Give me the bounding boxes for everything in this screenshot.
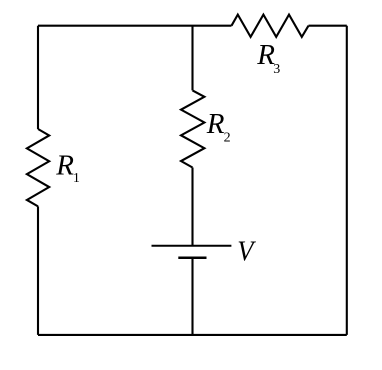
resistor R1 — [27, 129, 49, 206]
svg-text:R: R — [55, 149, 74, 181]
svg-text:V: V — [237, 236, 256, 268]
wire top-right segment — [309, 25, 347, 27]
wire right side — [346, 26, 348, 335]
wire top-left segment — [38, 25, 232, 27]
svg-text:R: R — [206, 108, 225, 140]
svg-text:2: 2 — [224, 131, 231, 146]
resistor R3 — [232, 15, 309, 37]
wire left lower — [37, 26, 39, 129]
resistor R2 — [181, 90, 204, 167]
svg-text:1: 1 — [73, 171, 80, 186]
svg-text:3: 3 — [273, 62, 280, 77]
wire battery to bottom — [191, 258, 193, 335]
battery V plate short — [178, 256, 206, 259]
wire middle to battery — [191, 168, 193, 246]
wire bottom — [38, 334, 347, 336]
battery V plate long — [152, 245, 232, 247]
wire left upper — [37, 206, 39, 335]
wire middle top — [191, 26, 193, 91]
